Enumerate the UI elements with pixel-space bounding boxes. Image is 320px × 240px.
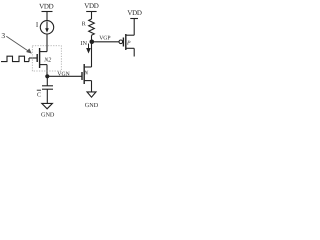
svg-text:GND: GND — [41, 112, 55, 119]
svg-text:VDD: VDD — [127, 9, 142, 17]
svg-text:GND: GND — [85, 102, 99, 109]
svg-text:VDD: VDD — [39, 3, 54, 11]
svg-text:R: R — [82, 22, 86, 28]
svg-text:VGN: VGN — [57, 72, 69, 78]
svg-text:3: 3 — [1, 31, 5, 40]
svg-text:IN: IN — [80, 40, 87, 47]
svg-text:C: C — [37, 92, 41, 98]
svg-text:P: P — [126, 40, 131, 46]
svg-text:VGP: VGP — [99, 36, 110, 42]
svg-text:N2: N2 — [43, 58, 51, 64]
svg-text:VDD: VDD — [84, 2, 99, 10]
